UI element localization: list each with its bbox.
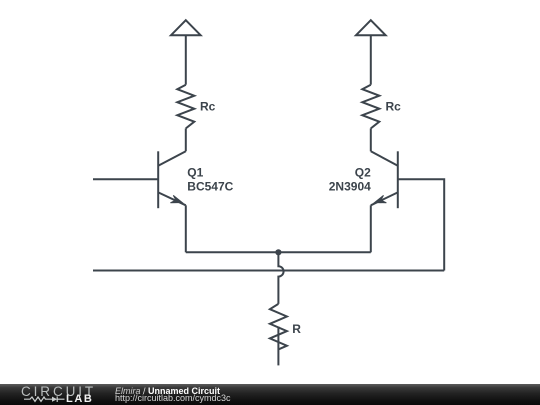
wire Q2 emitter down [370,205,372,252]
wire long horizontal net [93,270,444,272]
wire V+ left to Rc left [185,35,187,84]
transistor Q1 [158,151,186,208]
wire Q1 base [93,178,158,180]
resistor Rc left [177,85,194,129]
resistor R [270,304,287,350]
svg-text:Rc: Rc [386,100,402,114]
wire Q2 base to right rail [398,179,444,270]
CircuitLab logo text LAB [66,395,93,404]
wire junction to R with hop [278,252,283,304]
power supply V+ right [356,20,386,35]
breadcrumb [115,387,220,396]
wire emitter bus [186,251,371,253]
wire Rc left to Q1 collector [185,128,187,151]
svg-text:Q2: Q2 [355,165,371,179]
CircuitLab logo text CIRCUIT [21,386,96,397]
url [115,394,231,403]
svg-text:Q1: Q1 [187,165,203,179]
svg-text:BC547C: BC547C [187,179,233,193]
transistor Q2 [371,151,398,208]
wire Rc right to Q2 collector [370,128,372,151]
CircuitLab logo wire-resistor-diode glyph [0,384,100,405]
wire Q1 emitter down [185,205,187,252]
resistor Rc right [362,85,379,129]
power supply V+ left [171,20,201,35]
footer bar [0,384,540,405]
wire R bottom lead [277,327,279,366]
svg-text:Rc: Rc [200,100,216,114]
svg-text:R: R [292,322,301,336]
node junction dot [275,249,281,255]
svg-text:2N3904: 2N3904 [329,179,371,193]
wire V+ right to Rc right [370,35,372,84]
